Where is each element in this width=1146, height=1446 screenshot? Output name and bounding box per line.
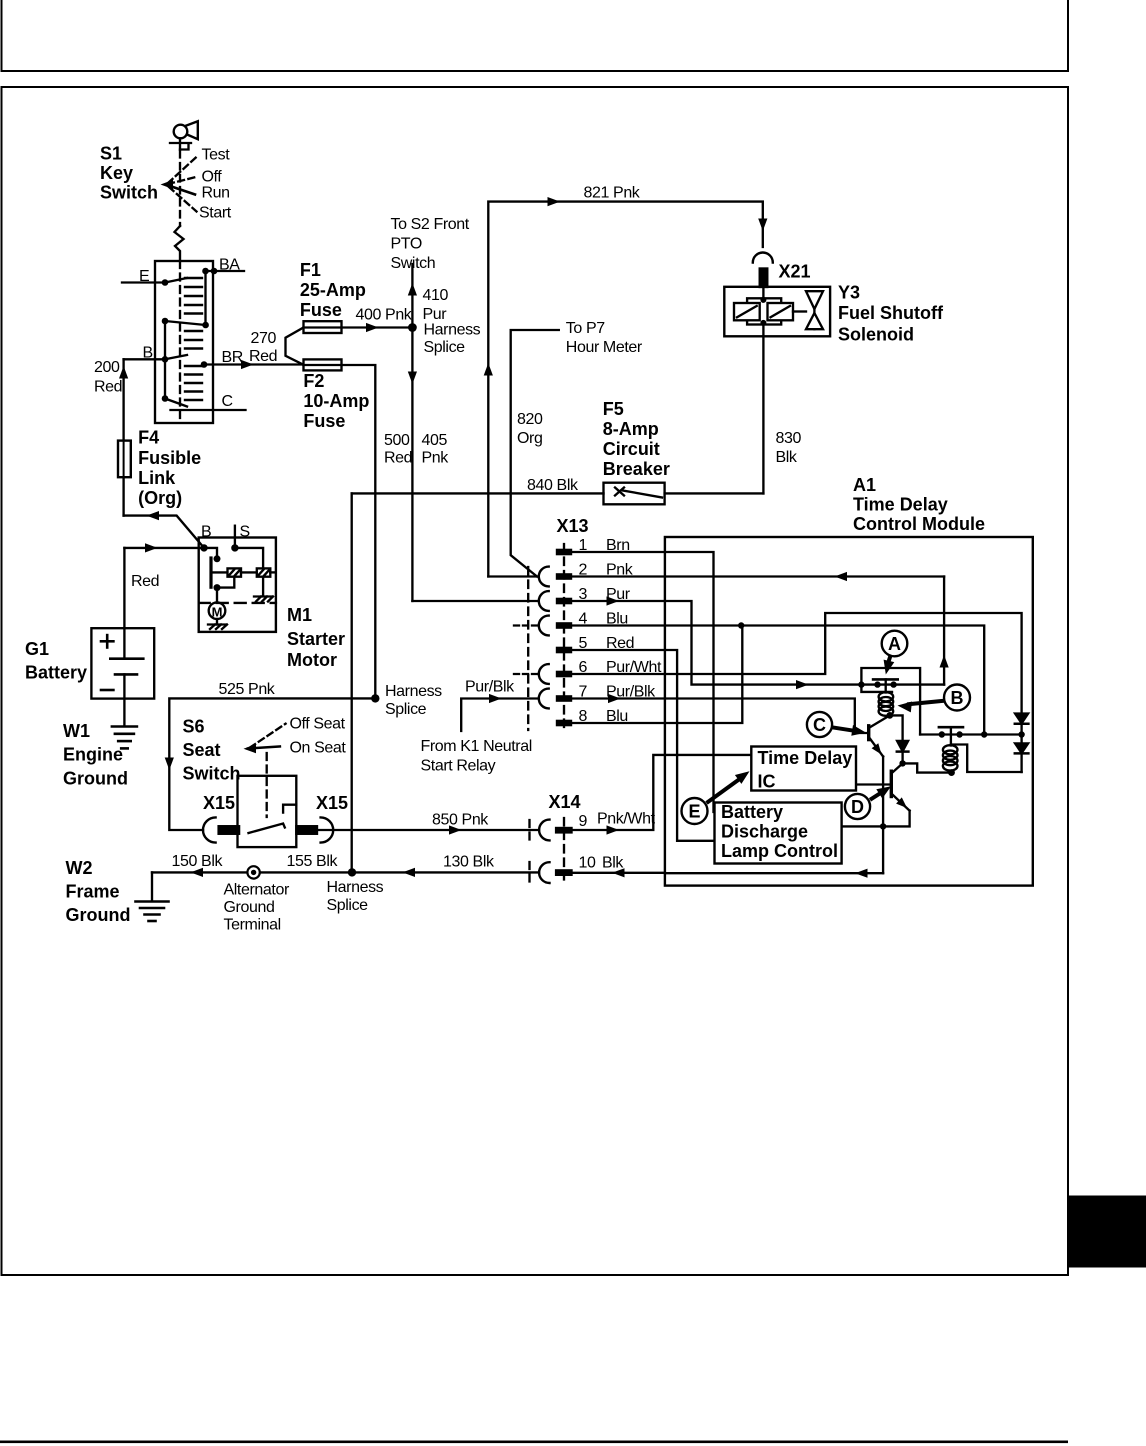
svg-text:A1: A1 [853, 475, 876, 495]
svg-text:155 Blk: 155 Blk [287, 853, 339, 870]
svg-text:Fusible: Fusible [138, 448, 201, 468]
svg-text:X13: X13 [557, 516, 589, 536]
svg-text:Blk: Blk [776, 449, 798, 466]
svg-text:M: M [212, 605, 223, 620]
svg-text:G1: G1 [25, 639, 49, 659]
svg-text:Splice: Splice [327, 897, 369, 914]
svg-text:Blu: Blu [606, 611, 628, 628]
svg-text:Switch: Switch [391, 255, 436, 272]
svg-text:270: 270 [251, 330, 277, 347]
svg-text:Switch: Switch [183, 764, 241, 784]
svg-text:Engine: Engine [63, 745, 123, 765]
svg-text:E: E [139, 268, 149, 285]
svg-text:Alternator: Alternator [224, 882, 290, 899]
svg-text:Pur: Pur [423, 306, 448, 323]
svg-text:BR: BR [222, 349, 243, 366]
svg-text:W1: W1 [63, 721, 90, 741]
svg-text:5: 5 [579, 635, 588, 652]
svg-text:Solenoid: Solenoid [838, 325, 914, 345]
svg-text:10-Amp: 10-Amp [303, 391, 369, 411]
svg-text:Breaker: Breaker [603, 459, 670, 479]
svg-text:410: 410 [423, 287, 449, 304]
svg-text:Frame: Frame [66, 882, 120, 902]
svg-text:Red: Red [384, 450, 412, 467]
svg-text:To S2 Front: To S2 Front [391, 216, 470, 233]
svg-text:Blk: Blk [602, 855, 624, 872]
svg-text:Harness: Harness [385, 683, 442, 700]
svg-text:Pur/Blk: Pur/Blk [606, 684, 656, 701]
svg-text:10: 10 [579, 855, 596, 872]
svg-text:E: E [688, 802, 700, 822]
svg-text:Blu: Blu [606, 708, 628, 725]
svg-text:Ground: Ground [224, 899, 275, 916]
svg-text:S6: S6 [183, 717, 205, 737]
svg-text:A: A [888, 634, 901, 654]
svg-text:B: B [201, 524, 211, 541]
svg-text:W2: W2 [66, 858, 93, 878]
svg-text:Battery: Battery [721, 802, 783, 822]
svg-text:Terminal: Terminal [224, 917, 281, 934]
svg-text:Lamp Control: Lamp Control [721, 841, 838, 861]
svg-text:X14: X14 [549, 792, 581, 812]
svg-text:C: C [813, 715, 826, 735]
svg-text:6: 6 [579, 659, 588, 676]
svg-text:Brn: Brn [606, 537, 630, 554]
svg-text:Splice: Splice [385, 701, 427, 718]
svg-text:525 Pnk: 525 Pnk [219, 681, 276, 698]
svg-text:To P7: To P7 [566, 320, 605, 337]
svg-text:C: C [222, 393, 233, 410]
svg-text:821 Pnk: 821 Pnk [584, 185, 641, 202]
svg-text:B: B [143, 345, 153, 362]
svg-text:4: 4 [579, 611, 588, 628]
svg-text:Off Seat: Off Seat [290, 716, 346, 733]
svg-text:Pnk: Pnk [606, 562, 634, 579]
svg-text:F5: F5 [603, 399, 624, 419]
svg-text:F4: F4 [138, 428, 159, 448]
svg-text:BA: BA [219, 257, 240, 274]
svg-text:8: 8 [579, 708, 588, 725]
svg-text:IC: IC [758, 772, 776, 792]
svg-text:8-Amp: 8-Amp [603, 419, 659, 439]
svg-text:Harness: Harness [327, 879, 384, 896]
svg-text:From K1 Neutral: From K1 Neutral [421, 738, 532, 755]
svg-text:Key: Key [100, 163, 133, 183]
svg-text:Splice: Splice [424, 339, 466, 356]
svg-text:820: 820 [517, 411, 543, 428]
svg-text:X21: X21 [779, 262, 811, 282]
svg-text:Link: Link [138, 468, 176, 488]
svg-text:Red: Red [94, 379, 122, 396]
svg-text:Org: Org [517, 430, 542, 447]
svg-text:1: 1 [579, 537, 588, 554]
svg-text:Pnk: Pnk [422, 450, 450, 467]
svg-text:(Org): (Org) [138, 488, 182, 508]
svg-text:Fuse: Fuse [300, 300, 342, 320]
svg-text:Discharge: Discharge [721, 822, 808, 842]
svg-text:D: D [851, 797, 864, 817]
svg-text:Off: Off [202, 169, 223, 186]
svg-text:Red: Red [249, 348, 277, 365]
svg-text:405: 405 [422, 432, 448, 449]
svg-text:Start: Start [199, 205, 232, 222]
svg-text:Control Module: Control Module [853, 514, 985, 534]
svg-text:F1: F1 [300, 260, 321, 280]
svg-text:Hour Meter: Hour Meter [566, 339, 643, 356]
svg-text:150 Blk: 150 Blk [172, 853, 224, 870]
svg-text:PTO: PTO [391, 236, 422, 253]
svg-text:On Seat: On Seat [290, 740, 347, 757]
svg-text:Red: Red [131, 573, 159, 590]
svg-text:S1: S1 [100, 144, 122, 164]
svg-text:Red: Red [606, 635, 634, 652]
svg-text:Pnk/Wht: Pnk/Wht [597, 811, 656, 828]
svg-text:Ground: Ground [66, 905, 131, 925]
svg-text:Circuit: Circuit [603, 439, 660, 459]
svg-text:Pur: Pur [606, 586, 631, 603]
svg-text:S: S [240, 524, 250, 541]
svg-text:Pur/Blk: Pur/Blk [465, 679, 515, 696]
svg-text:200: 200 [94, 359, 120, 376]
svg-text:500: 500 [384, 432, 410, 449]
svg-text:Y3: Y3 [838, 283, 860, 303]
svg-text:Seat: Seat [183, 740, 221, 760]
svg-text:7: 7 [579, 684, 588, 701]
svg-text:3: 3 [579, 586, 588, 603]
svg-text:Test: Test [202, 147, 231, 164]
svg-text:X15: X15 [316, 793, 348, 813]
svg-text:Ground: Ground [63, 769, 128, 789]
svg-text:2: 2 [579, 562, 588, 579]
svg-text:Battery: Battery [25, 663, 87, 683]
svg-text:Starter: Starter [287, 629, 345, 649]
svg-text:400 Pnk: 400 Pnk [356, 307, 413, 324]
svg-text:850 Pnk: 850 Pnk [432, 812, 489, 829]
svg-text:X15: X15 [203, 793, 235, 813]
svg-text:25-Amp: 25-Amp [300, 280, 366, 300]
svg-text:840 Blk: 840 Blk [527, 477, 579, 494]
svg-text:Fuel Shutoff: Fuel Shutoff [838, 303, 944, 323]
svg-text:130 Blk: 130 Blk [443, 854, 495, 871]
svg-text:Motor: Motor [287, 650, 337, 670]
svg-text:9: 9 [579, 813, 588, 830]
svg-text:Harness: Harness [424, 322, 481, 339]
svg-text:M1: M1 [287, 605, 312, 625]
svg-text:Start Relay: Start Relay [421, 758, 496, 775]
svg-text:Fuse: Fuse [303, 411, 345, 431]
svg-text:Switch: Switch [100, 183, 158, 203]
svg-text:B: B [951, 688, 964, 708]
svg-text:Time Delay: Time Delay [758, 748, 853, 768]
svg-text:Run: Run [202, 185, 230, 202]
svg-text:Time Delay: Time Delay [853, 495, 948, 515]
svg-text:830: 830 [776, 430, 802, 447]
svg-text:F2: F2 [303, 371, 324, 391]
svg-text:Pur/Wht: Pur/Wht [606, 659, 662, 676]
